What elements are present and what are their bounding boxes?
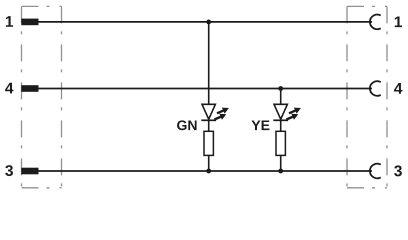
LED GN emission arrow 1 xyxy=(217,108,229,114)
label YE xyxy=(252,120,270,130)
right connector outline (dash-dot box) xyxy=(347,6,387,187)
left connector outline (dash-dot box) xyxy=(22,6,62,187)
left pin label 4 xyxy=(5,83,13,94)
left pin label 3 xyxy=(5,165,13,176)
right pin label 3 xyxy=(394,165,402,176)
LED GN (green) symbol xyxy=(201,104,216,120)
junction dot on wire 4 xyxy=(278,86,283,91)
right female contact pin 1 xyxy=(370,15,381,30)
junction dot on wire 3 (right) xyxy=(278,169,283,174)
wire pin3 left to right xyxy=(38,170,372,172)
wire LED YE to resistor xyxy=(280,120,282,131)
left pin label 1 xyxy=(6,16,13,27)
LED GN emission arrow 2 xyxy=(214,114,226,120)
label GN xyxy=(177,120,196,130)
right pin label 1 xyxy=(395,16,402,27)
wire resistor to pin3 wire xyxy=(208,155,210,171)
LED YE (yellow) symbol xyxy=(273,104,288,120)
right female contact pin 3 xyxy=(370,164,381,179)
junction dot on wire 3 (left) xyxy=(206,169,211,174)
left male contact pin 3 xyxy=(21,168,38,175)
junction dot on wire 1 xyxy=(206,20,211,25)
wire resistor to pin3 wire xyxy=(280,155,282,171)
wire pin4 left to right xyxy=(38,88,372,90)
right pin label 4 xyxy=(394,83,402,94)
vertical wire from pin4 wire down to YE LED xyxy=(280,89,282,105)
LED YE emission arrow 1 xyxy=(289,108,301,114)
left male contact pin 4 xyxy=(21,85,38,92)
LED YE emission arrow 2 xyxy=(286,114,298,120)
resistor under GN LED xyxy=(204,131,213,155)
right female contact pin 4 xyxy=(370,81,381,96)
resistor under YE LED xyxy=(276,131,285,155)
wire pin1 left to right xyxy=(38,21,372,23)
wire LED GN to resistor xyxy=(208,120,210,131)
left male contact pin 1 xyxy=(21,19,38,26)
vertical wire from pin1 wire down to GN LED xyxy=(208,22,210,104)
